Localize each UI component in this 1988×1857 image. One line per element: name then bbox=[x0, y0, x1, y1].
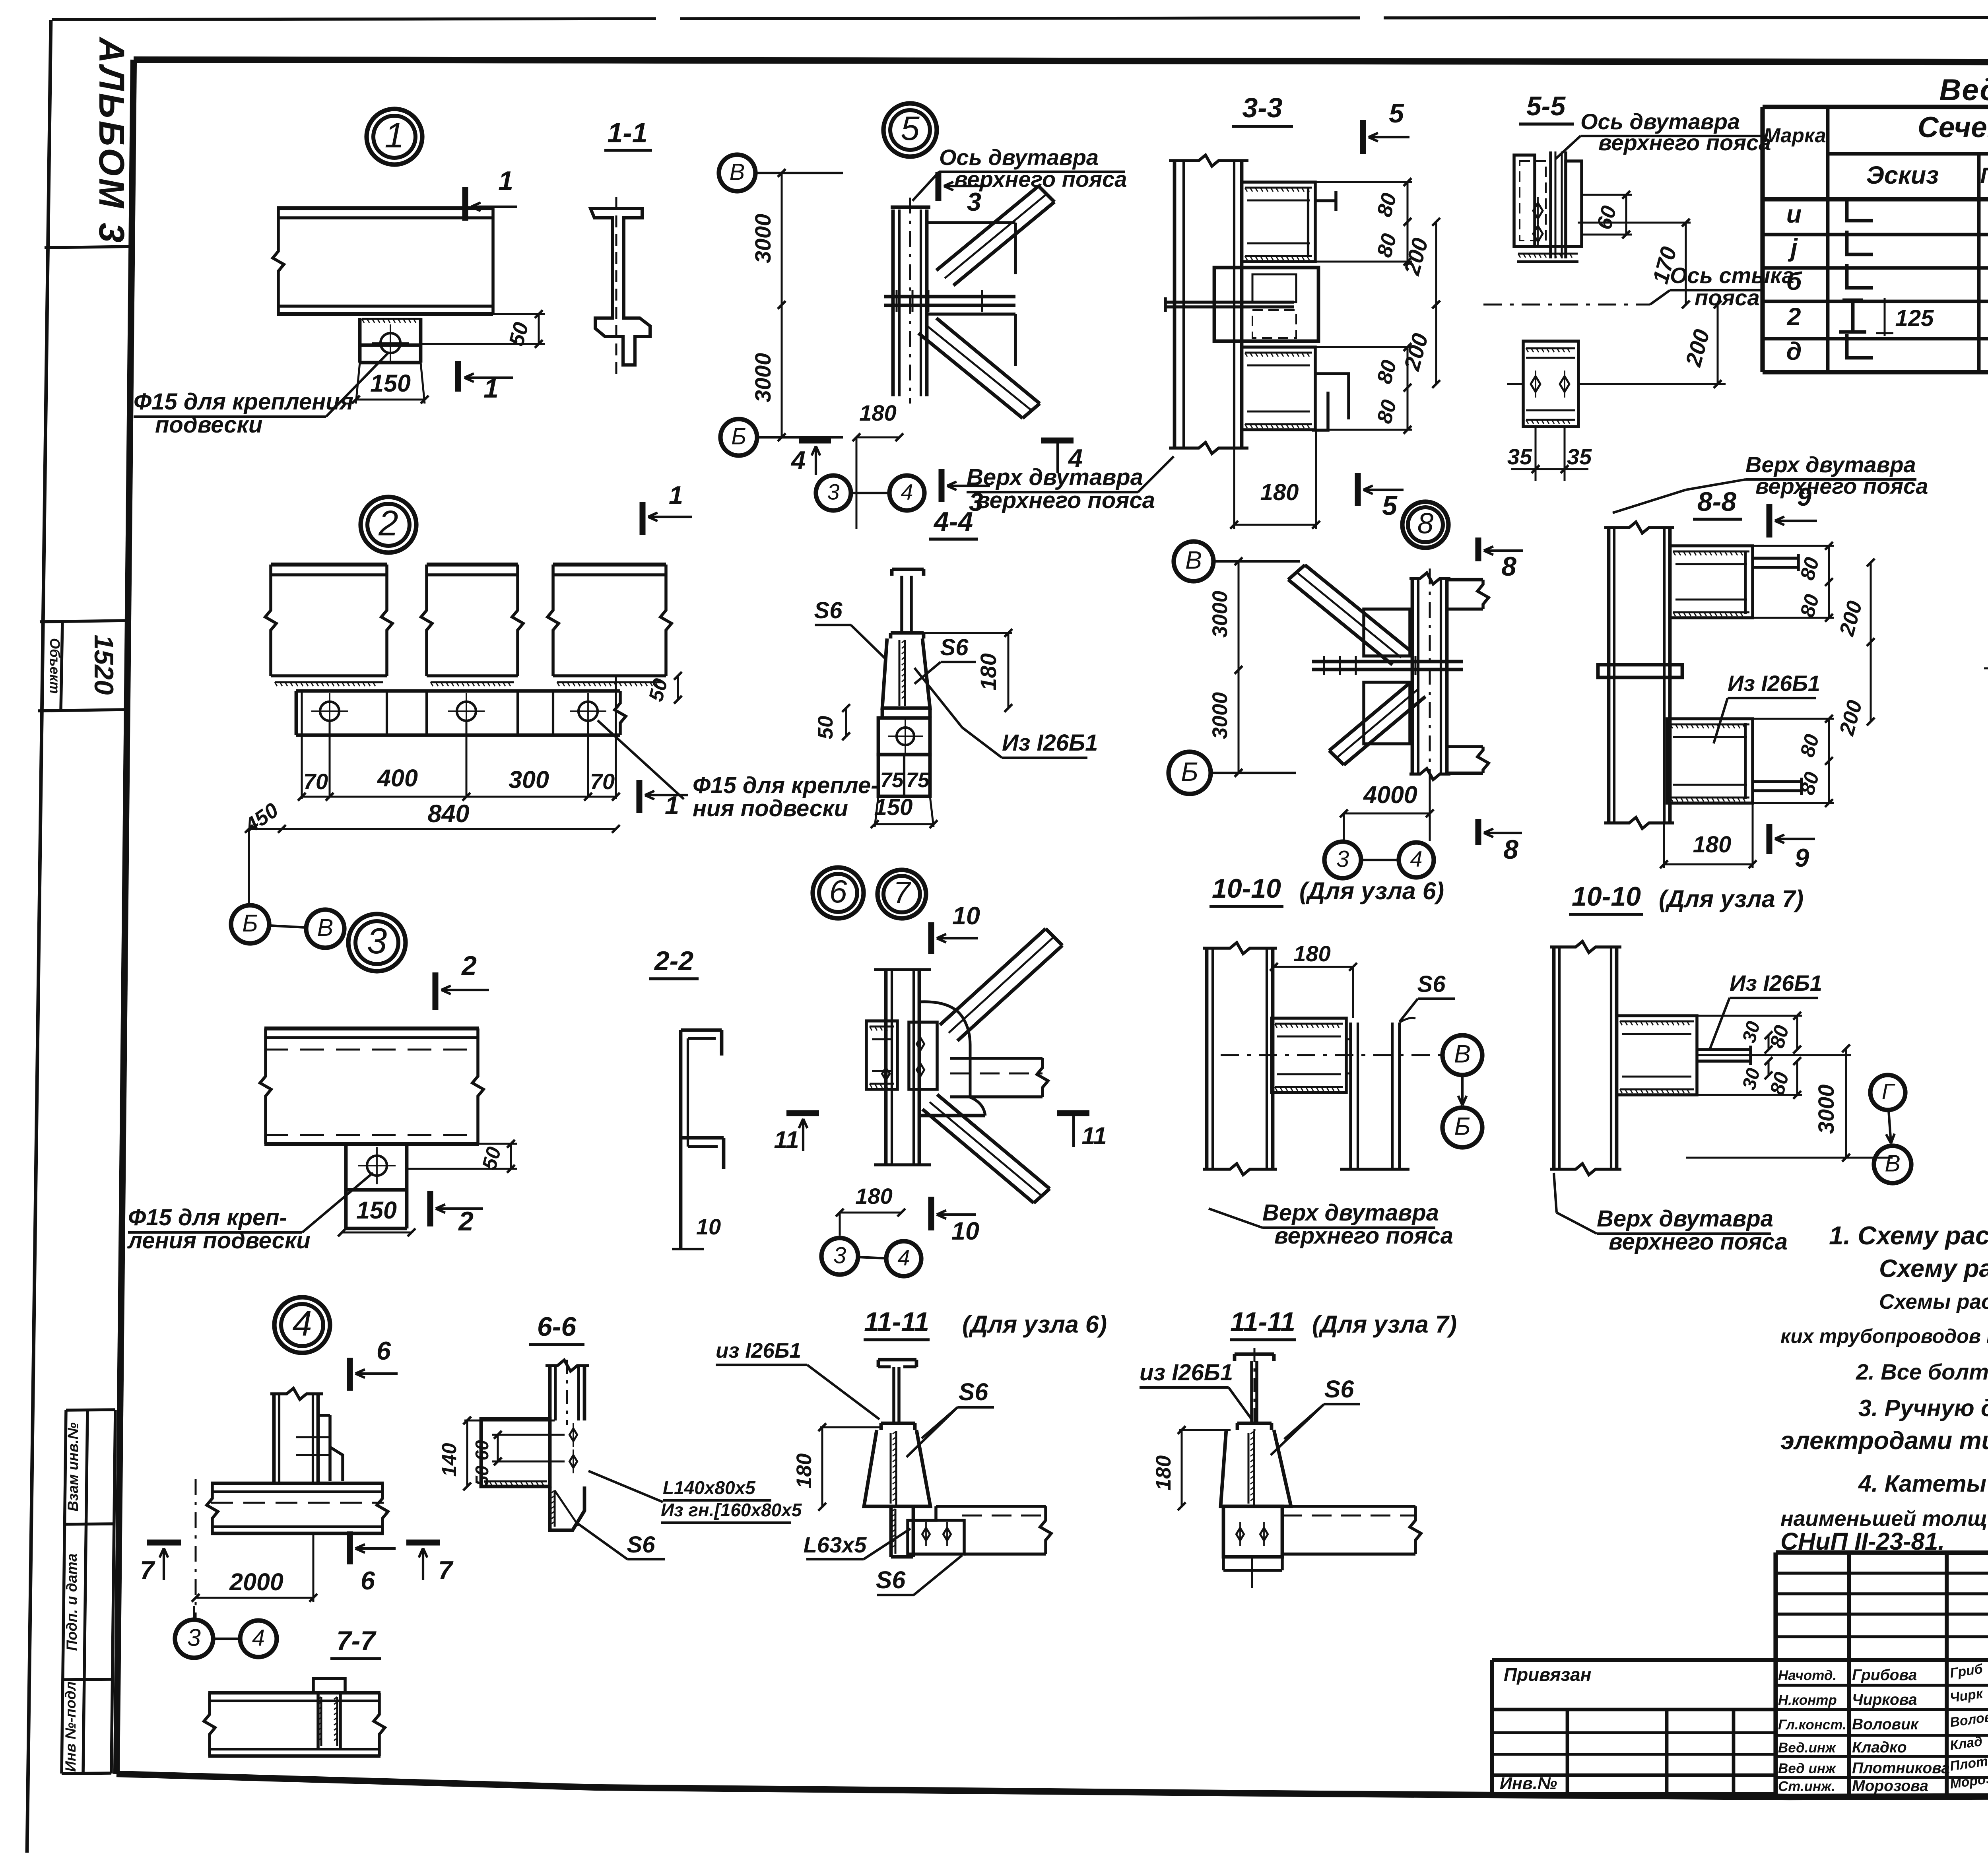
svg-text:125: 125 bbox=[1895, 305, 1934, 331]
svg-text:150: 150 bbox=[874, 794, 913, 820]
svg-text:3: 3 bbox=[827, 479, 839, 505]
svg-text:Б: Б bbox=[242, 910, 258, 937]
svg-text:2. Все болты М16 класса пр: 2. Все болты М16 класса прочности 5,6 по… bbox=[1856, 1359, 1988, 1384]
svg-text:Инв.№: Инв.№ bbox=[1500, 1774, 1557, 1793]
svg-text:3000: 3000 bbox=[750, 214, 775, 264]
svg-text:Объект: Объект bbox=[47, 638, 62, 694]
svg-text:СНиП II-23-81.: СНиП II-23-81. bbox=[1780, 1528, 1945, 1555]
svg-text:180: 180 bbox=[976, 653, 1001, 690]
svg-text:Н.контр: Н.контр bbox=[1778, 1692, 1837, 1708]
svg-text:11: 11 bbox=[1081, 1122, 1107, 1149]
svg-text:180: 180 bbox=[1260, 479, 1299, 505]
svg-text:S6: S6 bbox=[1417, 971, 1446, 997]
svg-text:75: 75 bbox=[906, 768, 930, 792]
svg-text:Схемы расположения элементов: Схемы расположения элементов крепления т… bbox=[1879, 1290, 1988, 1314]
svg-text:50: 50 bbox=[814, 716, 837, 739]
svg-text:Эскиз: Эскиз bbox=[1866, 161, 1939, 189]
svg-text:Взам инв.№: Взам инв.№ bbox=[65, 1422, 81, 1512]
svg-text:4: 4 bbox=[292, 1303, 312, 1343]
svg-text:6: 6 bbox=[361, 1566, 375, 1595]
svg-text:Ведомость элементов.: Ведомость элементов. bbox=[1939, 73, 1988, 107]
svg-text:1-1: 1-1 bbox=[607, 117, 647, 148]
svg-text:д: д bbox=[1786, 338, 1802, 365]
svg-text:10-10: 10-10 bbox=[1212, 873, 1281, 904]
svg-text:Б: Б bbox=[731, 423, 746, 449]
svg-text:7: 7 bbox=[140, 1556, 155, 1585]
svg-text:S6: S6 bbox=[959, 1378, 989, 1405]
svg-text:Морозова: Морозова bbox=[1852, 1777, 1928, 1795]
svg-text:180: 180 bbox=[855, 1184, 892, 1209]
svg-text:Подп. и дата: Подп. и дата bbox=[64, 1553, 80, 1651]
svg-text:Ф15 для крепле-: Ф15 для крепле- bbox=[693, 772, 879, 798]
svg-text:Ст.инж.: Ст.инж. bbox=[1778, 1779, 1835, 1794]
svg-text:S6: S6 bbox=[940, 635, 969, 660]
svg-text:2-2: 2-2 bbox=[654, 946, 693, 976]
svg-text:3. Ручную дуговую сварку вы: 3. Ручную дуговую сварку выполнять по ГО… bbox=[1858, 1395, 1988, 1421]
svg-text:180: 180 bbox=[792, 1453, 816, 1488]
svg-text:S6: S6 bbox=[627, 1532, 656, 1558]
svg-text:2000: 2000 bbox=[229, 1568, 283, 1595]
svg-text:1: 1 bbox=[498, 166, 513, 196]
svg-text:2: 2 bbox=[461, 951, 477, 981]
svg-text:1: 1 bbox=[669, 481, 683, 510]
svg-text:180: 180 bbox=[1693, 832, 1732, 858]
svg-text:L140х80х5: L140х80х5 bbox=[663, 1477, 756, 1498]
svg-text:3000: 3000 bbox=[1208, 692, 1232, 739]
svg-text:В: В bbox=[730, 159, 745, 185]
svg-text:4: 4 bbox=[252, 1625, 265, 1651]
svg-text:75: 75 bbox=[880, 768, 904, 792]
svg-text:5: 5 bbox=[1389, 98, 1404, 128]
svg-text:1520: 1520 bbox=[89, 635, 119, 695]
svg-text:35: 35 bbox=[1507, 444, 1532, 469]
svg-text:Ф15 для креп-: Ф15 для креп- bbox=[128, 1205, 287, 1230]
svg-text:3: 3 bbox=[367, 921, 387, 961]
svg-text:8: 8 bbox=[1501, 551, 1516, 582]
svg-text:4: 4 bbox=[897, 1245, 910, 1270]
svg-text:Схему расположения прогонов: Схему расположения прогонов см. лист 11. bbox=[1879, 1255, 1988, 1283]
svg-text:из I26Б1: из I26Б1 bbox=[1140, 1360, 1233, 1385]
svg-text:1: 1 bbox=[384, 115, 404, 155]
svg-text:50: 50 bbox=[472, 1465, 492, 1486]
svg-text:Кладко: Кладко bbox=[1852, 1739, 1907, 1756]
svg-text:2: 2 bbox=[1786, 303, 1801, 331]
svg-text:3: 3 bbox=[1336, 846, 1349, 872]
svg-text:Плотникова: Плотникова bbox=[1852, 1760, 1950, 1777]
svg-text:10: 10 bbox=[951, 1217, 979, 1245]
svg-text:400: 400 bbox=[377, 765, 418, 792]
svg-text:5: 5 bbox=[901, 110, 920, 147]
svg-text:2: 2 bbox=[458, 1206, 474, 1236]
svg-text:Начотд.: Начотд. bbox=[1778, 1668, 1837, 1683]
svg-text:1: 1 bbox=[665, 791, 679, 820]
svg-text:3: 3 bbox=[187, 1624, 201, 1651]
svg-text:300: 300 bbox=[509, 766, 549, 793]
svg-text:35: 35 bbox=[1567, 444, 1592, 469]
svg-text:Из I26Б1: Из I26Б1 bbox=[1730, 970, 1822, 995]
svg-text:4. Катеты неоговоренных свар: 4. Катеты неоговоренных сварных швов при… bbox=[1858, 1471, 1988, 1497]
svg-text:150: 150 bbox=[370, 370, 411, 397]
svg-text:3000: 3000 bbox=[1208, 591, 1232, 638]
svg-text:из I26Б1: из I26Б1 bbox=[716, 1339, 801, 1362]
svg-text:Из I26Б1: Из I26Б1 bbox=[1002, 730, 1098, 756]
svg-text:150: 150 bbox=[356, 1197, 397, 1224]
svg-text:1: 1 bbox=[483, 373, 499, 404]
svg-text:6-6: 6-6 bbox=[537, 1312, 577, 1342]
svg-text:8-8: 8-8 bbox=[1697, 487, 1736, 517]
svg-text:S6: S6 bbox=[876, 1566, 906, 1593]
svg-text:Сечение: Сечение bbox=[1918, 111, 1988, 144]
svg-text:4000: 4000 bbox=[1363, 781, 1417, 808]
svg-text:70: 70 bbox=[303, 769, 328, 794]
svg-text:11: 11 bbox=[774, 1126, 799, 1153]
svg-text:8: 8 bbox=[1417, 508, 1434, 540]
svg-text:Б: Б bbox=[1181, 757, 1198, 787]
svg-text:4: 4 bbox=[901, 479, 913, 505]
svg-text:6: 6 bbox=[829, 874, 847, 910]
svg-text:Верх двутавра: Верх двутавра bbox=[1597, 1206, 1773, 1232]
svg-text:4-4: 4-4 bbox=[933, 506, 973, 537]
svg-text:В: В bbox=[317, 914, 334, 941]
svg-text:3000: 3000 bbox=[750, 353, 775, 403]
svg-text:180: 180 bbox=[1152, 1455, 1175, 1490]
svg-text:11-11: 11-11 bbox=[1230, 1307, 1295, 1337]
svg-text:5: 5 bbox=[1382, 491, 1398, 521]
svg-text:В: В bbox=[1185, 547, 1202, 574]
svg-text:Марка: Марка bbox=[1763, 124, 1826, 147]
svg-text:АЛЬБОМ 3: АЛЬБОМ 3 bbox=[91, 37, 131, 245]
svg-text:4: 4 bbox=[1410, 846, 1422, 871]
svg-text:Привязан: Привязан bbox=[1504, 1664, 1591, 1685]
svg-text:Вед.инж: Вед.инж bbox=[1778, 1740, 1837, 1756]
svg-text:В: В bbox=[1454, 1040, 1471, 1068]
svg-text:Гл.конст.: Гл.конст. bbox=[1778, 1717, 1846, 1733]
svg-text:6: 6 bbox=[377, 1336, 391, 1365]
svg-text:10: 10 bbox=[952, 902, 980, 930]
svg-text:Поз: Поз bbox=[1980, 163, 1988, 188]
svg-text:Верх двутавра: Верх двутавра bbox=[1262, 1200, 1439, 1226]
svg-text:7-7: 7-7 bbox=[336, 1626, 377, 1656]
svg-text:S6: S6 bbox=[1324, 1376, 1355, 1403]
svg-text:Ф15 для крепления: Ф15 для крепления bbox=[134, 389, 353, 415]
svg-text:ких трубопроводов к верхнем: ких трубопроводов к верхнему поясу струк… bbox=[1780, 1325, 1988, 1347]
svg-text:ния подвески: ния подвески bbox=[693, 796, 848, 821]
svg-text:9: 9 bbox=[1795, 843, 1809, 872]
svg-text:3-3: 3-3 bbox=[1242, 92, 1282, 123]
svg-text:Верх двутавра: Верх двутавра bbox=[967, 464, 1143, 490]
svg-text:и: и bbox=[1786, 200, 1802, 228]
svg-text:Воловик: Воловик bbox=[1852, 1716, 1919, 1733]
svg-text:4: 4 bbox=[790, 446, 806, 475]
svg-text:70: 70 bbox=[590, 769, 615, 794]
svg-text:В: В bbox=[1885, 1151, 1900, 1177]
svg-text:9: 9 bbox=[1797, 482, 1811, 511]
svg-text:(Для узла 6): (Для узла 6) bbox=[1299, 877, 1444, 904]
svg-text:2: 2 bbox=[378, 503, 398, 543]
svg-text:Из гн.[160х80х5: Из гн.[160х80х5 bbox=[661, 1500, 802, 1520]
svg-text:10-10: 10-10 bbox=[1572, 881, 1641, 912]
svg-text:Инв №-подл: Инв №-подл bbox=[62, 1681, 79, 1772]
svg-text:Г: Г bbox=[1882, 1079, 1895, 1104]
svg-text:Из I26Б1: Из I26Б1 bbox=[1728, 671, 1820, 696]
svg-text:L63х5: L63х5 bbox=[804, 1532, 867, 1557]
svg-text:электродами типа Э42 по ГО: электродами типа Э42 по ГОСТ 9467-75. bbox=[1780, 1427, 1988, 1455]
svg-text:(Для узла 7): (Для узла 7) bbox=[1659, 885, 1804, 912]
svg-text:8: 8 bbox=[1503, 834, 1518, 865]
svg-text:Б: Б bbox=[1454, 1113, 1470, 1141]
svg-text:1. Схему расположения структ: 1. Схему расположения структурных блоков… bbox=[1829, 1221, 1988, 1250]
svg-text:180: 180 bbox=[1293, 941, 1330, 966]
svg-text:наименьшей толщине свариваем: наименьшей толщине свариваемых элементов… bbox=[1780, 1507, 1988, 1531]
svg-text:(Для узла 6): (Для узла 6) bbox=[962, 1311, 1107, 1338]
svg-text:верхнего пояса: верхнего пояса bbox=[1598, 130, 1771, 155]
svg-text:3: 3 bbox=[833, 1242, 846, 1268]
svg-text:3000: 3000 bbox=[1813, 1085, 1839, 1134]
svg-text:5-5: 5-5 bbox=[1526, 91, 1566, 121]
svg-text:7: 7 bbox=[893, 875, 911, 910]
svg-text:140: 140 bbox=[438, 1443, 460, 1477]
svg-text:S6: S6 bbox=[814, 598, 843, 623]
svg-text:10: 10 bbox=[696, 1214, 721, 1239]
svg-text:840: 840 bbox=[427, 800, 469, 828]
svg-text:Ось стыка: Ось стыка bbox=[1670, 263, 1794, 288]
svg-text:7: 7 bbox=[438, 1556, 454, 1585]
svg-text:Вед инж: Вед инж bbox=[1778, 1761, 1837, 1776]
svg-text:верхнего пояса: верхнего пояса bbox=[1755, 473, 1928, 499]
svg-text:пояса: пояса bbox=[1695, 285, 1760, 310]
svg-text:3: 3 bbox=[967, 187, 981, 216]
svg-text:60: 60 bbox=[472, 1440, 492, 1461]
svg-text:(Для узла 7): (Для узла 7) bbox=[1312, 1311, 1457, 1338]
svg-text:Грибова: Грибова bbox=[1852, 1667, 1917, 1684]
svg-text:11-11: 11-11 bbox=[864, 1307, 929, 1337]
svg-text:180: 180 bbox=[859, 400, 896, 425]
svg-text:Ось двутавра: Ось двутавра bbox=[939, 145, 1099, 170]
svg-text:Чиркова: Чиркова bbox=[1852, 1691, 1917, 1708]
